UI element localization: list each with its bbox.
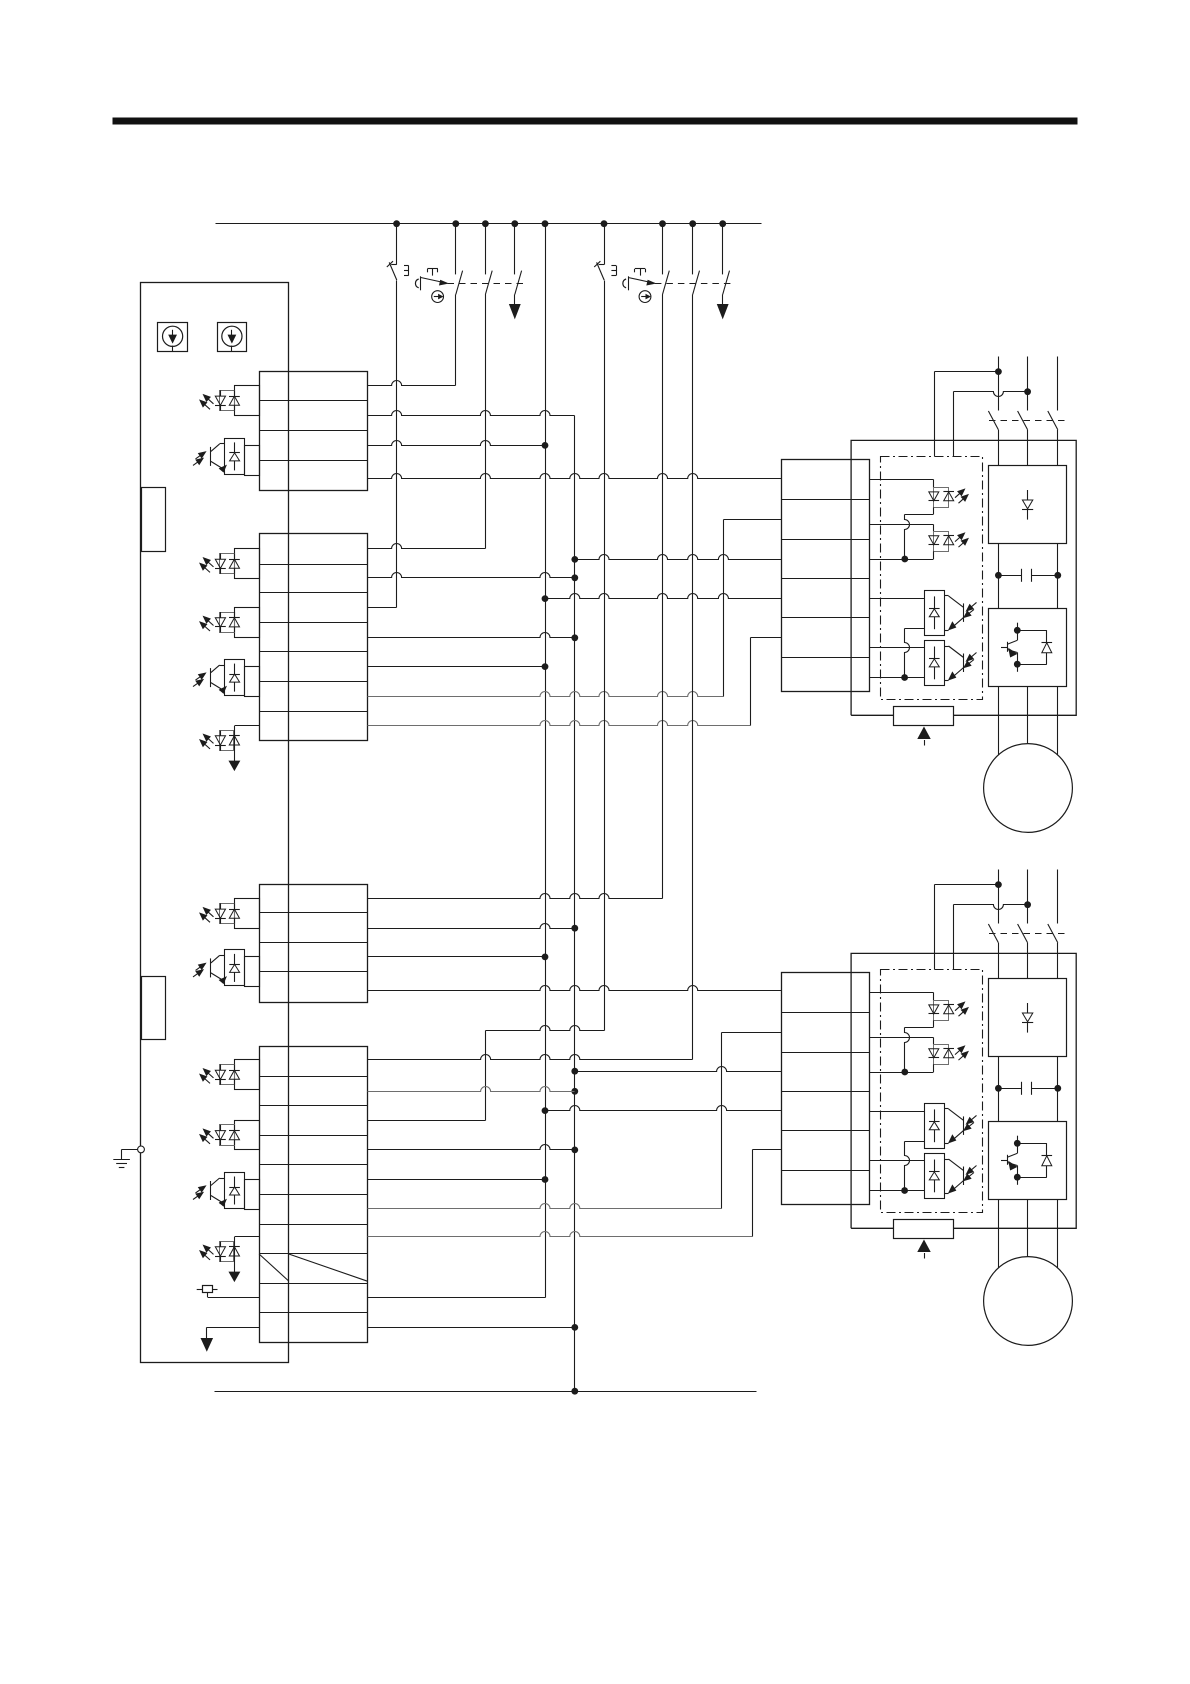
contactor MC2 linkage dash <box>655 283 735 285</box>
optocoupler PC7 package <box>220 904 235 924</box>
wire TB4 row10 link <box>368 1327 575 1329</box>
servo amp 1 opto LED <box>929 492 940 501</box>
optocoupler PC4 LED <box>215 612 226 632</box>
wire L11 to amp1 row4 <box>546 594 782 599</box>
servo amp 1 phase line V <box>1027 357 1029 411</box>
servo amp 2 IGBT <box>1001 1136 1021 1185</box>
servo amp 2 stub row2 <box>870 1037 934 1039</box>
servo amp 2 phase line V <box>1027 870 1029 924</box>
servo amp 2 opto box <box>925 1154 945 1199</box>
axis select rotary switch 1 <box>158 323 188 352</box>
optocoupler PC6 package <box>220 731 234 751</box>
optocoupler PC9 diode <box>229 1064 240 1084</box>
servo amp 2 tap junction 1 <box>995 881 1002 888</box>
wire amp2 row5 entry <box>753 1149 782 1151</box>
servo amp 2 outer case <box>851 953 1076 1228</box>
servo amp 1 stub row2 <box>870 524 934 526</box>
optocoupler PC4 diode <box>229 612 240 632</box>
servo amp 1 cap lead <box>998 575 1057 577</box>
servo amp 1 stub row2 drop <box>933 525 935 532</box>
servo amp 1 opto box diode <box>929 647 940 680</box>
servo amp 1 stub row1 drop <box>933 480 935 488</box>
servo amp 1 control tap 1 <box>935 371 999 373</box>
servo amp 2 opto box diode <box>929 1160 940 1193</box>
servo amp 1 IGBT <box>1001 623 1021 672</box>
servo amp 2 dc bus P <box>998 1057 1000 1122</box>
servo amp 2 junction opto common <box>901 1069 908 1076</box>
contactor MC1 pole a <box>456 224 463 295</box>
servo amp 1 cap junction P <box>995 572 1002 579</box>
servo amp 1 phase line W <box>1057 357 1059 411</box>
servo amp 2 contactor dash <box>989 933 1065 935</box>
wire to frame <box>234 726 236 762</box>
optocoupler PC10 package <box>220 1125 235 1146</box>
optocoupler PC8 phototransistor <box>211 955 227 983</box>
optocoupler PC9 LED <box>215 1064 226 1084</box>
servo amp 2 cap junction N <box>1054 1085 1061 1092</box>
wire TB4 row7 <box>235 1236 260 1238</box>
contactor MC2 pole c <box>723 224 730 295</box>
servo amp 1 opto A out drop <box>905 515 910 560</box>
servo amp 2 opto diode <box>943 1049 954 1058</box>
relay contact diagonal b <box>289 1254 368 1281</box>
servo amp 2 opto B out <box>933 1064 935 1072</box>
servo amp 2 contactor pole <box>1018 924 1028 979</box>
wire amp2 row2 entry <box>722 1032 782 1034</box>
servo amp 2 phase line W <box>1057 870 1059 924</box>
junction amp1 row4 tap <box>542 595 549 602</box>
servo amp 1 contactor dash <box>989 420 1065 422</box>
servo amp 2 control tap 2 drop <box>953 905 955 970</box>
wire TB3 row1 <box>368 894 663 899</box>
optocoupler PC4 light arrows <box>200 617 214 632</box>
servo amp 1 phase line U <box>998 357 1000 411</box>
servo amp 1 opto LED bracket <box>934 488 949 508</box>
servo amp 1 terminal block <box>782 460 870 692</box>
servo amp 1 opto light arrows <box>964 653 977 668</box>
contactor MC2 pole b <box>693 224 700 295</box>
wire to frame <box>234 1237 236 1273</box>
terminal block TB4 <box>259 1047 367 1343</box>
servo amp 1 regen arrow <box>918 728 930 746</box>
terminal stub <box>235 549 260 579</box>
optocoupler PC7 LED <box>215 903 226 923</box>
servo amp 1 servo motor <box>984 744 1073 833</box>
junction amp2 row3 tap <box>571 1068 578 1075</box>
bus junction <box>719 220 726 227</box>
servo amp 1 contactor pole <box>1018 411 1028 466</box>
servo amp 1 opto box <box>925 641 945 686</box>
optocoupler PC11 light arrows <box>193 1186 206 1200</box>
servo amp 1 stub row6 <box>870 677 925 679</box>
optocoupler PC5 package <box>225 660 245 696</box>
junction TB4 row2 / L21 <box>571 1088 578 1095</box>
servo amp 1 opto box <box>925 591 945 636</box>
bus junction <box>511 220 518 227</box>
junction TB4 row10 / L21 <box>571 1324 578 1331</box>
servo amp 2 opto phototransistor <box>944 1109 963 1144</box>
wire MC2 pole c stub <box>722 295 724 305</box>
optocoupler PC8 light arrows <box>193 963 206 977</box>
optocoupler PC11 diode <box>229 1177 240 1205</box>
servo amp 1 stub row4 <box>870 598 925 600</box>
bus junction <box>452 220 459 227</box>
earth ground symbol <box>113 1160 130 1168</box>
wire MC1 pole c stub <box>514 295 516 305</box>
optocoupler PC10 light arrows <box>200 1129 214 1144</box>
wire TB3 row2 <box>368 924 575 929</box>
servo amp 2 tap junction 2 <box>1024 901 1031 908</box>
optocoupler PC6 light arrows <box>200 734 214 749</box>
wire TB2 row2 <box>368 573 575 578</box>
servo amp 2 interface dash box <box>881 970 983 1213</box>
connector CN1 on controller <box>142 488 166 552</box>
optocoupler PC7 diode <box>229 903 240 923</box>
wire TB4 row2 <box>368 1087 575 1092</box>
optocoupler PC6 LED <box>215 731 226 751</box>
servo amp 2 opto LED bracket <box>934 1045 949 1065</box>
servo amp 1 control tap 2 drop <box>953 392 955 457</box>
bus junction <box>393 220 400 227</box>
optocoupler PC5 diode <box>229 664 240 692</box>
wire TB4 row6 to amp2 row2 <box>368 1204 722 1209</box>
servo amp 2 opto C out <box>905 1141 925 1143</box>
terminal block TB2 <box>259 534 367 741</box>
optocoupler PC12 diode <box>229 1247 240 1257</box>
servo amp 1 control tap 2 <box>954 392 1028 397</box>
servo amp 1 opto light arrows <box>955 489 968 503</box>
terminal stub <box>235 1121 260 1150</box>
wire TB3 row3 <box>368 956 546 958</box>
servo amp 1 outer case <box>851 440 1076 715</box>
terminal block TB3 <box>259 885 367 1003</box>
wire NFB2 jog <box>486 1026 605 1031</box>
servo amp 2 opto phototransistor <box>944 1159 963 1194</box>
servo amp 2 rectifier box <box>989 979 1067 1057</box>
servo amp 1 opto LED bracket <box>934 532 949 552</box>
wire amp2 row5 riser <box>752 1150 754 1237</box>
wire TB2 row6 to amp1 row2 <box>368 692 724 697</box>
wire TB2 row7 <box>235 725 260 727</box>
optocoupler PC1 LED <box>215 390 226 410</box>
optocoupler PC8 diode <box>229 954 240 982</box>
servo amp 2 opto light arrows <box>955 1002 968 1016</box>
terminal stub <box>235 386 260 416</box>
connector CN2 on controller <box>142 977 166 1040</box>
servo amp 2 opto diode <box>943 1005 954 1014</box>
wire amp1 row2 entry <box>724 519 782 521</box>
terminal stub <box>235 1060 260 1090</box>
terminal block TB1 <box>259 372 367 491</box>
optocoupler PC3 diode <box>229 553 240 573</box>
thermistor symbol <box>197 1286 218 1298</box>
wire TB4 row1 <box>368 1055 693 1060</box>
optocoupler PC3 light arrows <box>200 558 214 573</box>
arrow frame ground <box>229 761 239 770</box>
servo amp 2 stub row5 <box>870 1160 925 1162</box>
servo amp 2 cap junction P <box>995 1085 1002 1092</box>
servo amp 2 opto C out drop <box>905 1142 910 1191</box>
wire MC2a down <box>662 295 664 899</box>
terminal stub <box>245 446 260 476</box>
servo amp 2 opto light arrows <box>964 1166 977 1181</box>
wire TB4 row4 <box>368 1145 575 1150</box>
servo amp 1 opto light arrows <box>964 602 977 617</box>
junction TB4 row5 / L11 <box>542 1176 549 1183</box>
terminal stub <box>235 899 260 929</box>
servo amp 2 stub row6 <box>870 1190 925 1192</box>
servo amp 2 control tap 1 drop <box>934 885 936 970</box>
servo amp 2 opto box <box>925 1104 945 1149</box>
optocoupler PC9 package <box>220 1065 235 1085</box>
page header rule <box>113 118 1078 125</box>
servo amp 2 terminal block <box>782 973 870 1205</box>
junction TB2 row2 / L21 <box>571 574 578 581</box>
wire TB2 row4 <box>368 633 575 638</box>
servo amp 1 cap junction N <box>1054 572 1061 579</box>
servo amp 1 dc bus P <box>998 544 1000 609</box>
wire TB4 row9 link <box>368 1297 546 1299</box>
servo amp 1 opto C out drop <box>905 629 910 678</box>
servo amp 1 tap junction 2 <box>1024 388 1031 395</box>
terminal stub <box>235 608 260 638</box>
bus junction <box>601 220 608 227</box>
servo amp 1 stub row5 <box>870 647 925 649</box>
servo amp 2 opto LED <box>929 1049 940 1058</box>
bus junction <box>659 220 666 227</box>
servo amp 1 rectifier diode <box>1022 490 1033 520</box>
servo amp 1 rectifier box <box>989 466 1067 544</box>
optocoupler PC12 LED <box>215 1242 226 1262</box>
servo amp 2 stub row1 <box>870 992 934 994</box>
contactor MC2 pole a <box>663 224 670 295</box>
optocoupler PC10 diode <box>229 1125 240 1145</box>
optocoupler PC9 light arrows <box>200 1069 214 1084</box>
optocoupler PC10 LED <box>215 1125 226 1145</box>
junction amp2 row4 tap <box>542 1107 549 1114</box>
terminal stub <box>245 1180 260 1210</box>
optocoupler PC12 package <box>220 1242 234 1262</box>
circuit breaker NFB1 <box>387 224 409 280</box>
servo amp 1 opto light arrows <box>955 533 968 547</box>
wire L11 feeder <box>545 224 547 1298</box>
optocoupler PC3 package <box>220 554 235 574</box>
servo amp 2 dc bus N <box>1057 1057 1059 1122</box>
wire NFB2 jog drop <box>485 1031 487 1121</box>
arrow frame ground <box>229 1272 239 1281</box>
wire L21 feeder <box>574 416 576 1392</box>
servo amp 2 freewheel diode <box>1017 1143 1052 1177</box>
wire TB4 row5 <box>368 1179 546 1181</box>
optocoupler PC1 light arrows <box>200 395 214 410</box>
junction TB4 row4 / L21 <box>571 1147 578 1154</box>
servo amp 1 opto diode <box>943 536 954 545</box>
optocoupler PC2 light arrows <box>193 452 206 466</box>
servo amp 1 contactor pole <box>988 411 998 466</box>
servo amp 1 interface dash box <box>881 457 983 700</box>
servo amp 1 motor lead W <box>1057 687 1059 755</box>
wire L21 to amp2 row3 <box>575 1067 782 1072</box>
servo amp 2 capacitor <box>1022 1082 1032 1095</box>
servo amp 1 opto box diode <box>929 596 940 629</box>
servo amp 1 motor lead U <box>998 687 1000 755</box>
wire amp1 row5 riser <box>750 638 752 726</box>
optocoupler PC4 package <box>220 613 235 633</box>
servo amp 1 opto LED <box>929 536 940 545</box>
servo amp 1 junction opto common <box>901 556 908 563</box>
wire TB4 row10 to shield <box>207 1327 260 1329</box>
servo amp 2 junction opto common 2 <box>901 1187 908 1194</box>
wire TB1 row4 to amp1 <box>368 474 782 479</box>
junction bottom bus / L21 <box>571 1388 578 1395</box>
wire NFB2 to TB4 row3 <box>368 1120 486 1122</box>
servo amp 1 inverter box <box>989 609 1067 687</box>
servo amp 1 control tap 1 drop <box>934 372 936 457</box>
junction TB2 row5 / L11 <box>542 663 549 670</box>
arrow shield ground <box>201 1339 212 1351</box>
servo amp 2 opto light arrows <box>955 1046 968 1060</box>
bottom common bus <box>215 1391 757 1393</box>
servo amp 1 opto C out <box>905 628 925 630</box>
servo amp 1 freewheel diode <box>1017 630 1052 664</box>
wire thermistor to TB4 row9 <box>208 1297 260 1299</box>
arrow to servo power 2 <box>718 305 728 319</box>
junction TB3 row2 / L21 <box>571 925 578 932</box>
servo amp 1 opto diode <box>943 492 954 501</box>
wire TB2 row7 to amp1 row5 <box>368 721 751 726</box>
wire L21 to amp1 row3 <box>575 555 782 560</box>
servo amp 2 control tap 2 <box>954 905 1028 910</box>
optocoupler PC5 light arrows <box>193 673 206 687</box>
servo amp 1 opto phototransistor <box>944 646 963 681</box>
servo amp 2 stub row1 drop <box>933 993 935 1001</box>
optocoupler PC5 phototransistor <box>211 665 227 693</box>
servo amp 2 inverter box <box>989 1122 1067 1200</box>
wire TB2 row1 <box>368 544 486 549</box>
servo amp 2 stub row4 <box>870 1111 925 1113</box>
terminal stub <box>245 667 260 697</box>
servo amp 1 regen resistor <box>894 707 954 726</box>
wire L11 to amp2 row4 <box>546 1106 782 1111</box>
servo amp 2 regen resistor <box>894 1220 954 1239</box>
wire amp2 row2 riser <box>721 1033 723 1209</box>
servo amp 2 motor lead V <box>1027 1200 1029 1257</box>
wire amp1 row2 riser <box>723 520 725 697</box>
optocoupler PC11 phototransistor <box>211 1178 227 1206</box>
wire TB2 row5 <box>368 666 546 668</box>
optocoupler PC7 light arrows <box>200 908 214 923</box>
optocoupler PC6 diode <box>229 736 240 746</box>
contactor MC1 linkage dash <box>448 283 528 285</box>
contactor MC2 operator <box>623 269 655 303</box>
bus junction <box>689 220 696 227</box>
controller box <box>141 283 289 1363</box>
wire TB3 row4 to amp2 row1 <box>368 986 782 991</box>
wire MC1b down <box>485 295 487 549</box>
servo amp 2 opto box diode <box>929 1109 940 1142</box>
optocoupler PC1 package <box>220 391 235 411</box>
servo amp 2 motor lead W <box>1057 1200 1059 1268</box>
wire MC1a to TB1 row1 <box>455 295 457 386</box>
optocoupler PC8 package <box>225 950 245 986</box>
servo amp 1 motor lead V <box>1027 687 1029 744</box>
wire NFB1 out <box>396 281 398 608</box>
arrow to servo power <box>510 305 520 319</box>
wire amp1 row5 entry <box>751 637 782 639</box>
wire NFB1 to TB2 row3 <box>368 607 397 609</box>
servo amp 2 stub row2 drop <box>933 1038 935 1045</box>
optocoupler PC2 phototransistor <box>211 444 227 472</box>
contactor MC1 pole b <box>485 224 492 295</box>
servo amp 1 stub row3 <box>870 559 934 561</box>
wire TB4 row7 to amp2 row5 <box>368 1232 753 1237</box>
servo amp 2 opto A out drop <box>905 1028 910 1073</box>
servo amp 2 rectifier diode <box>1022 1003 1033 1033</box>
circuit breaker NFB2 <box>594 224 616 280</box>
wire MC2b down <box>692 295 694 1060</box>
junction TB3 row3 / L11 <box>542 954 549 961</box>
servo amp 2 opto LED <box>929 1005 940 1014</box>
bus junction <box>482 220 489 227</box>
contactor MC1 operator <box>415 269 447 303</box>
servo amp 1 tap junction 1 <box>995 368 1002 375</box>
contactor MC1 pole c <box>515 224 522 295</box>
optocoupler PC11 package <box>225 1173 245 1209</box>
servo amp 2 servo motor <box>984 1257 1073 1346</box>
servo amp 1 dc bus N <box>1057 544 1059 609</box>
terminal stub <box>245 957 260 987</box>
optocoupler PC1 diode <box>229 390 240 410</box>
optocoupler PC2 package <box>225 439 245 475</box>
relay contact diagonal a <box>259 1254 289 1281</box>
servo amp 1 capacitor <box>1022 569 1032 582</box>
ground lead <box>122 1149 138 1159</box>
optocoupler PC2 diode <box>229 442 240 470</box>
optocoupler PC12 light arrows <box>200 1245 214 1260</box>
servo amp 2 contactor pole <box>1048 924 1058 979</box>
power bus L1 <box>216 223 762 225</box>
wire TB1 row1 <box>368 381 456 386</box>
servo amp 2 opto LED bracket <box>934 1001 949 1021</box>
servo amp 1 opto B out <box>933 551 935 559</box>
servo amp 2 motor lead U <box>998 1200 1000 1268</box>
servo amp 1 contactor pole <box>1048 411 1058 466</box>
servo amp 2 cap lead <box>998 1088 1057 1090</box>
wire TB1 row3 <box>368 441 546 446</box>
junction TB2 row4 / L21 <box>571 634 578 641</box>
ground node circle <box>138 1146 145 1153</box>
wire TB1 row2 <box>368 411 575 416</box>
servo amp 2 regen arrow <box>918 1241 930 1259</box>
servo amp 2 stub row3 <box>870 1072 934 1074</box>
servo amp 2 control tap 1 <box>935 884 999 886</box>
servo amp 1 stub row1 <box>870 479 934 481</box>
servo amp 1 junction opto common 2 <box>901 674 908 681</box>
wire NFB2 out <box>604 281 606 1031</box>
servo amp 2 contactor pole <box>988 924 998 979</box>
servo amp 1 opto A out <box>905 507 934 514</box>
servo amp 2 opto A out <box>905 1020 934 1027</box>
bus junction <box>542 220 549 227</box>
wire shield drop <box>206 1327 208 1339</box>
optocoupler PC3 LED <box>215 553 226 573</box>
junction amp1 row3 tap <box>571 556 578 563</box>
servo amp 2 phase line U <box>998 870 1000 924</box>
junction TB1 row3 / L11 <box>542 442 549 449</box>
servo amp 2 opto light arrows <box>964 1115 977 1130</box>
servo amp 1 opto phototransistor <box>944 596 963 631</box>
axis select rotary switch 2 <box>218 323 247 352</box>
